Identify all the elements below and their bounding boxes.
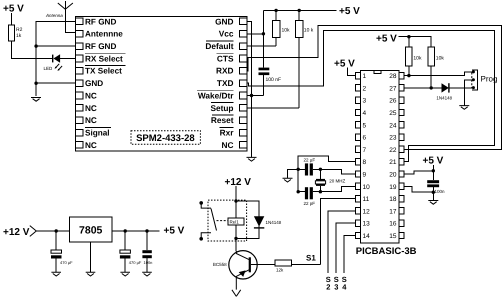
svg-text:12k: 12k [276, 268, 284, 273]
svg-text:PICBASIC-3B: PICBASIC-3B [356, 246, 417, 257]
svg-text:12: 12 [363, 208, 371, 215]
svg-text:+5 V: +5 V [376, 34, 397, 45]
svg-text:Wake/Dtr: Wake/Dtr [198, 90, 234, 100]
svg-text:TX Select: TX Select [85, 67, 122, 76]
svg-text:NC: NC [85, 91, 97, 100]
svg-text:6: 6 [363, 135, 367, 142]
svg-text:100n: 100n [435, 189, 446, 194]
svg-text:3: 3 [363, 98, 367, 105]
svg-text:100 nF: 100 nF [266, 77, 282, 83]
svg-text:Antenna: Antenna [45, 13, 63, 18]
svg-text:26: 26 [389, 98, 397, 105]
svg-text:10k: 10k [413, 56, 422, 62]
svg-text:11: 11 [363, 196, 370, 203]
svg-text:NC: NC [85, 141, 97, 150]
svg-text:NC: NC [85, 116, 97, 125]
svg-text:20: 20 [389, 172, 397, 179]
svg-text:470 µF: 470 µF [129, 260, 142, 265]
svg-text:10k: 10k [282, 28, 291, 34]
svg-text:Prog: Prog [481, 75, 498, 84]
svg-text:RF GND: RF GND [85, 17, 116, 26]
svg-text:NC: NC [222, 140, 234, 150]
svg-text:LED: LED [44, 66, 54, 71]
svg-text:16: 16 [389, 221, 397, 228]
svg-text:2: 2 [363, 85, 367, 92]
svg-text:2: 2 [326, 283, 330, 292]
svg-text:1: 1 [363, 73, 367, 80]
svg-text:1k: 1k [16, 33, 22, 39]
svg-text:Signal: Signal [85, 129, 110, 138]
svg-text:17: 17 [389, 208, 397, 215]
svg-text:CTS: CTS [217, 53, 234, 63]
svg-text:15: 15 [389, 233, 397, 240]
svg-text:10: 10 [363, 184, 371, 191]
svg-text:RX Select: RX Select [85, 54, 123, 63]
svg-text:7: 7 [363, 147, 367, 154]
svg-text:20 MHZ: 20 MHZ [329, 179, 345, 184]
svg-text:+12 V: +12 V [225, 177, 252, 188]
svg-text:BC558: BC558 [213, 262, 227, 267]
svg-text:Antennne: Antennne [85, 30, 123, 39]
svg-text:9: 9 [363, 172, 367, 179]
svg-text:24: 24 [389, 122, 397, 129]
svg-text:23: 23 [389, 135, 397, 142]
svg-text:+5 V: +5 V [339, 6, 360, 17]
svg-text:470 µF: 470 µF [60, 260, 73, 265]
svg-text:27: 27 [389, 85, 397, 92]
svg-text:RF GND: RF GND [85, 42, 116, 51]
svg-text:S1: S1 [306, 254, 316, 263]
svg-text:+5 V: +5 V [164, 226, 185, 237]
svg-text:RXD: RXD [216, 66, 234, 76]
svg-text:14: 14 [363, 233, 371, 240]
svg-text:+12 V: +12 V [3, 227, 30, 238]
svg-text:28: 28 [389, 73, 397, 80]
svg-text:GND: GND [85, 79, 103, 88]
svg-text:+5 V: +5 V [423, 156, 444, 167]
svg-text:10k: 10k [436, 56, 445, 62]
svg-text:+5 V: +5 V [334, 59, 355, 70]
svg-text:Vcc: Vcc [219, 29, 234, 39]
svg-text:13: 13 [363, 221, 371, 228]
svg-text:1N4148: 1N4148 [436, 96, 452, 101]
svg-text:5: 5 [363, 122, 367, 129]
svg-text:7805: 7805 [79, 225, 103, 237]
svg-text:10 k: 10 k [304, 28, 314, 34]
svg-text:Rel1: Rel1 [230, 220, 240, 225]
svg-text:Default: Default [205, 41, 233, 51]
svg-text:SPM2-433-28: SPM2-433-28 [136, 133, 195, 144]
svg-text:8: 8 [363, 159, 367, 166]
svg-text:4: 4 [363, 110, 367, 117]
svg-text:+5 V: +5 V [3, 4, 24, 15]
svg-text:25: 25 [389, 110, 397, 117]
svg-text:TXD: TXD [217, 78, 234, 88]
svg-text:19: 19 [389, 184, 397, 191]
svg-text:1N4148: 1N4148 [266, 220, 282, 225]
svg-text:22: 22 [389, 147, 397, 154]
svg-text:22 pF: 22 pF [304, 201, 316, 206]
svg-text:NC: NC [85, 104, 97, 113]
svg-text:21: 21 [389, 159, 397, 166]
svg-text:18: 18 [389, 196, 397, 203]
svg-text:Setup: Setup [210, 103, 233, 113]
svg-text:100n: 100n [144, 260, 153, 265]
svg-text:GND: GND [215, 16, 233, 26]
svg-text:22 µF: 22 µF [304, 158, 316, 163]
svg-text:Rxr: Rxr [220, 128, 235, 138]
svg-text:Reset: Reset [211, 115, 234, 125]
svg-text:3: 3 [334, 283, 338, 292]
